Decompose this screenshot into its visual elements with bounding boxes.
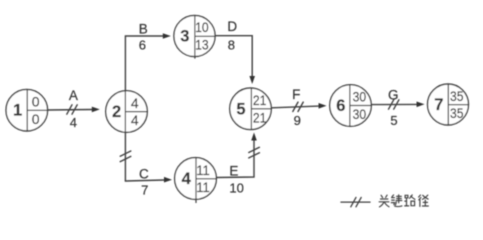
svg-text:A: A xyxy=(69,88,78,103)
svg-text:13: 13 xyxy=(195,37,209,53)
svg-text:0: 0 xyxy=(32,94,40,110)
char 径 xyxy=(419,195,429,206)
node 6 xyxy=(330,85,372,127)
svg-text:C: C xyxy=(139,167,149,182)
svg-text:4: 4 xyxy=(131,112,139,128)
critical-path tick on E vertical xyxy=(249,147,260,158)
svg-text:30: 30 xyxy=(353,89,367,105)
critical-path tick on A xyxy=(67,105,77,114)
svg-text:21: 21 xyxy=(253,92,267,108)
legend text 关键路径 (drawn strokes) xyxy=(379,195,428,207)
svg-text:F: F xyxy=(292,87,300,102)
critical-path tick on C vertical xyxy=(120,151,131,162)
wire F (node5 to node6) xyxy=(272,103,327,109)
svg-text:4: 4 xyxy=(182,170,192,188)
svg-text:7: 7 xyxy=(434,96,443,114)
svg-text:4: 4 xyxy=(70,115,77,130)
svg-text:1: 1 xyxy=(13,102,22,120)
char 路 xyxy=(405,195,415,206)
svg-text:6: 6 xyxy=(139,38,146,53)
critical-path tick on F xyxy=(293,102,303,111)
node 7 xyxy=(428,84,469,125)
svg-text:30: 30 xyxy=(353,106,367,122)
svg-text:5: 5 xyxy=(236,100,245,118)
svg-text:21: 21 xyxy=(253,109,267,125)
svg-text:E: E xyxy=(229,164,238,179)
svg-text:10: 10 xyxy=(195,19,209,35)
svg-text:11: 11 xyxy=(196,179,210,195)
critical-path tick on G xyxy=(389,100,399,109)
svg-text:10: 10 xyxy=(229,180,243,195)
svg-text:B: B xyxy=(139,22,148,37)
legend: critical path sample line xyxy=(341,197,370,206)
svg-text:D: D xyxy=(227,19,237,34)
svg-text:4: 4 xyxy=(131,95,139,111)
svg-text:2: 2 xyxy=(112,103,121,121)
node 2 xyxy=(106,91,148,133)
wire E (node4 right, up to node5) xyxy=(217,133,257,178)
wire G (node6 to node7) xyxy=(371,102,424,108)
wire C horizontal (corner to node4) xyxy=(125,177,172,183)
svg-text:7: 7 xyxy=(141,182,148,197)
node 5 xyxy=(230,88,272,130)
wire D (node3 right, down to node5) xyxy=(215,36,255,84)
svg-text:G: G xyxy=(388,87,399,102)
node 1 xyxy=(6,89,48,131)
svg-text:8: 8 xyxy=(228,38,235,53)
legend critical-path tick xyxy=(351,197,356,206)
svg-text:11: 11 xyxy=(196,162,210,178)
svg-text:6: 6 xyxy=(336,97,345,115)
wire A (node1 to node2) xyxy=(48,107,100,113)
svg-text:0: 0 xyxy=(32,111,40,127)
svg-text:9: 9 xyxy=(294,113,301,128)
wire B vertical+horizontal (node2 up to node3) xyxy=(125,33,170,181)
svg-text:35: 35 xyxy=(450,105,464,121)
svg-text:35: 35 xyxy=(450,88,464,104)
node 4 xyxy=(175,158,217,203)
svg-text:5: 5 xyxy=(390,113,397,128)
svg-text:3: 3 xyxy=(180,28,189,46)
char 键 xyxy=(391,195,402,207)
node 3 xyxy=(174,15,215,58)
char 关 xyxy=(379,195,389,207)
